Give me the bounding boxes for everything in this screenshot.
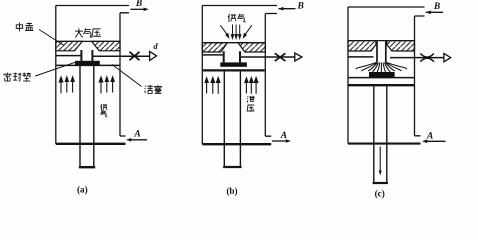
svg-text:B: B [297, 2, 304, 12]
svg-text:(a): (a) [77, 184, 88, 194]
svg-text:A: A [426, 132, 433, 142]
svg-text:(c): (c) [375, 189, 385, 199]
svg-text:A: A [133, 129, 140, 139]
svg-text:A: A [280, 131, 287, 141]
svg-text:(b): (b) [226, 186, 237, 196]
svg-text:B: B [135, 0, 142, 9]
svg-text:B: B [433, 2, 440, 12]
